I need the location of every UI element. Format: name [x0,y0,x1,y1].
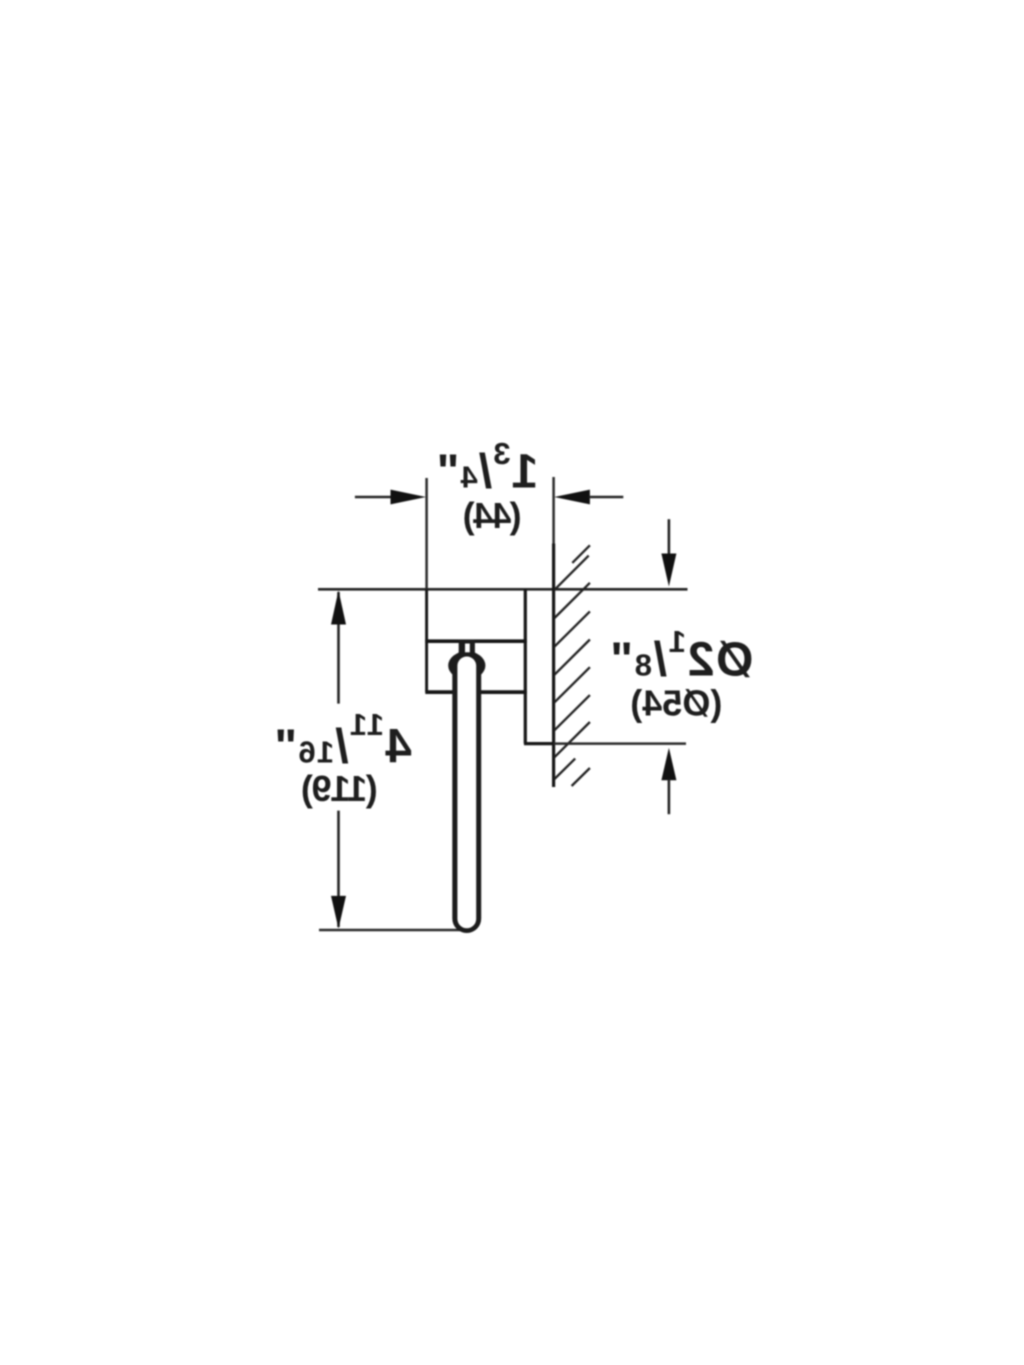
pivot pin slot [465,644,470,653]
svg-text:(Ø54): (Ø54) [630,683,722,724]
holder body bottom edge (left part) [425,690,454,694]
top dimension left arrow [355,496,392,499]
wall hatching [555,545,590,786]
left extension line / fixture front edge [425,478,428,589]
left overall dimension line (upper segment) [337,592,340,704]
mounting plate bottom edge [524,742,554,745]
left overall dimension line (lower segment) [337,811,340,927]
diameter dimension top arrow (points down) [668,519,671,554]
hanging ring (outer) [452,650,481,933]
pivot ball [448,651,485,679]
top extension line (overall top) [318,588,688,591]
top dimension right arrow [554,490,590,505]
wall line [552,544,555,788]
hanging ring (inner white) [457,657,476,929]
holder body top edge [425,639,527,643]
holder body bottom edge (right part) [479,690,527,694]
svg-text:(44): (44) [464,495,522,536]
left dimension top arrowhead [331,591,346,625]
wall face extension line [552,477,555,544]
pivot pin [459,640,475,659]
mounting plate left edge [524,589,527,743]
bottom extension line of plate (for diameter dim) [554,742,686,745]
diameter dimension bottom arrow (points up) [661,748,676,780]
svg-text:13/4": 13/4" [436,436,539,499]
svg-text:(119): (119) [302,768,378,809]
bottom extension line (overall bottom) [319,929,461,932]
left dimension bottom arrowhead [331,896,346,929]
